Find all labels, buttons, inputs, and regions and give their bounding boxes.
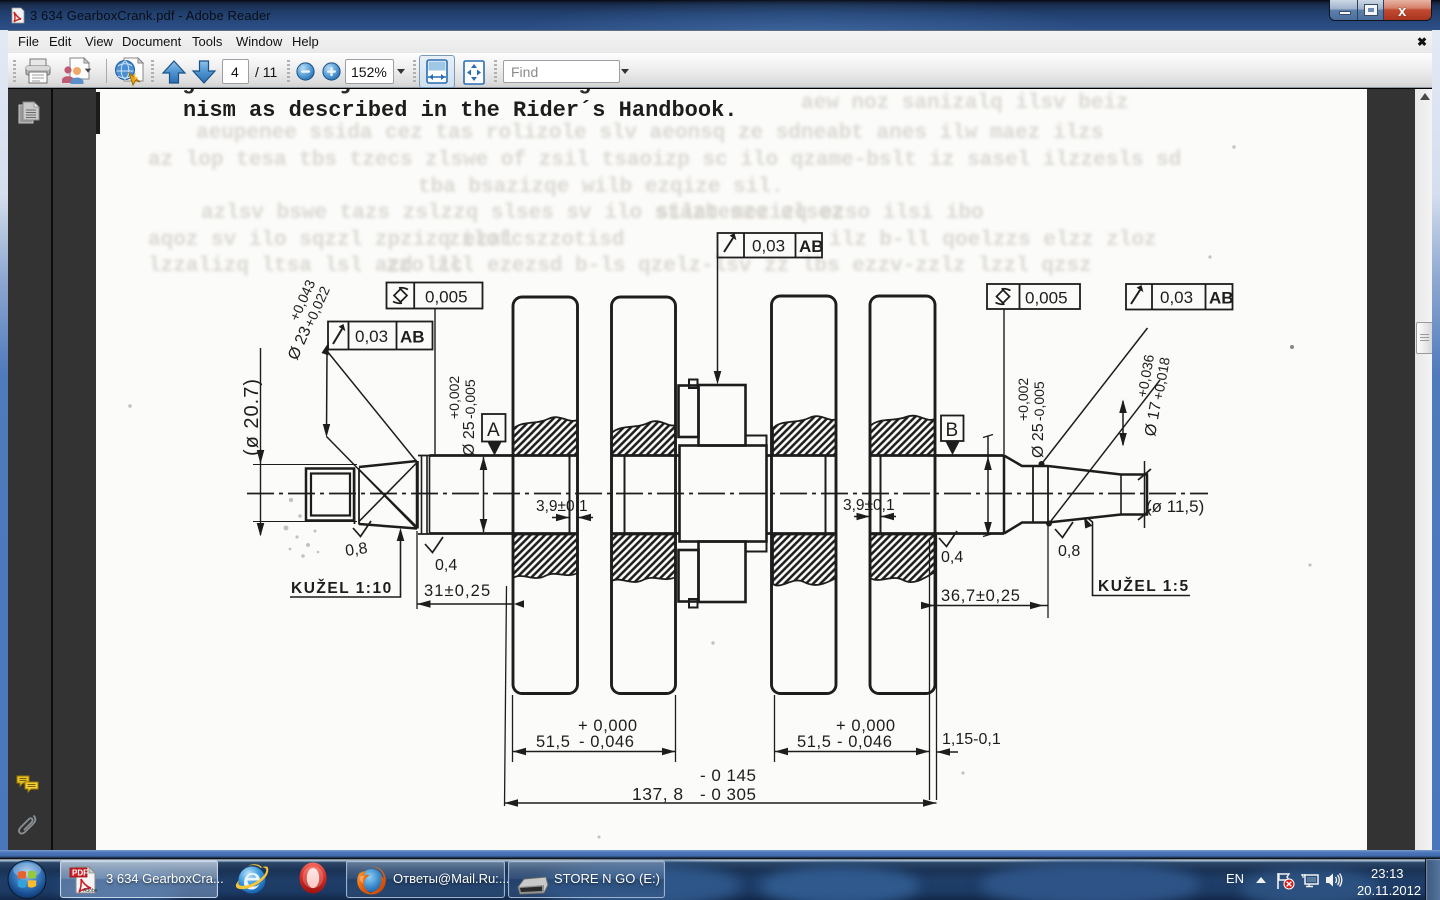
dim 36,7±0,25 [921,524,1048,800]
svg-text:0,8: 0,8 [1058,543,1080,560]
cone cross X [359,463,417,528]
hatch: web1 upper [513,416,935,586]
svg-text:0,03: 0,03 [1160,288,1193,307]
taskbar button: firefox [346,860,505,898]
fit width button (active) [419,55,455,88]
printer icon [24,58,52,85]
frame F2 runout 0,03 AB [328,322,433,350]
collar rings [418,456,430,535]
svg-text:0,03: 0,03 [355,327,388,346]
F3 leader arrow [717,258,719,378]
zoom out [296,62,315,81]
svg-text:KUŽEL 1:5: KUŽEL 1:5 [1098,577,1190,595]
svg-text:36,7±0,25: 36,7±0,25 [941,587,1021,605]
svg-text:0,005: 0,005 [425,288,468,307]
typewriter line [183,98,738,123]
title bar [0,0,1440,30]
datum A flag [482,414,506,456]
svg-text:-0,005: -0,005 [462,379,478,419]
hatch: web4 lower [870,535,935,583]
frame F5 0,03 AB right [1126,284,1233,310]
svg-text:51,5: 51,5 [536,733,571,751]
ghost bleed-through lines [801,92,1129,115]
hatch: web2 upper [612,421,676,455]
right shaft end profile [1004,456,1147,534]
svg-text:- 0,046: - 0,046 [837,733,893,751]
page number box [222,59,249,84]
rotated label Ø25 left [446,376,478,456]
web 2 [612,297,676,694]
svg-text:(ø 11,5): (ø 11,5) [1146,497,1204,516]
svg-text:0,4: 0,4 [941,549,963,566]
collaborate icon [60,57,98,86]
svg-text:Ø 25: Ø 25 [1030,423,1047,458]
svg-text:AB: AB [1209,289,1234,308]
fit page button [462,60,486,85]
roughness 0,4 right [939,531,957,547]
tray: clock [1371,866,1404,881]
svg-text:0,8: 0,8 [344,540,368,560]
partial cut text line at page top [182,73,591,95]
tray: speaker [1325,872,1343,888]
svg-text:- 0 145: - 0 145 [700,766,756,785]
sidebar: paperclip icon [17,812,39,839]
hatch: web3 lower [773,535,836,586]
svg-text:Ø 23: Ø 23 [285,324,315,363]
gear: bottom tab [689,599,698,608]
gear: top ring [699,385,746,446]
taskbar button: usb [508,860,665,898]
dim 3,9 gap1 [552,514,593,522]
gear: top right step [746,436,767,446]
svg-text:3,9±0,1: 3,9±0,1 [843,497,895,514]
roughness 0,4 left [425,537,443,553]
groove lines web4 left [870,456,881,534]
start orb [7,860,47,899]
frame F3 top center [718,233,823,258]
dim 3,9 gap2 [854,513,896,521]
journal top/bottom lines [430,456,578,534]
svg-text:B: B [946,420,959,441]
gear: top collar [679,380,767,608]
scan speckles [128,145,1311,838]
svg-text:137, 8: 137, 8 [632,784,684,804]
gear: bottom ring [699,542,746,603]
gear: bottom right step [746,542,767,552]
window frame left [0,30,8,852]
dim 51,5 left [513,695,676,762]
datum B flag [941,416,964,456]
svg-text:AB: AB [400,328,425,347]
svg-text:1,15-0,1: 1,15-0,1 [942,731,1001,748]
svg-text:0,03: 0,03 [752,237,785,256]
svg-text:51,5: 51,5 [797,733,832,751]
hatch: web4 upper [870,416,935,456]
nav down arrow [191,59,217,85]
Ø25 left dim arrows [480,457,488,533]
Ø23 leader with arrows [321,341,417,529]
F1 leader [434,309,436,455]
hatch: web1 lower [513,535,578,579]
hatch: web3 upper [773,416,836,455]
title bar app icon [10,7,26,24]
nav up arrow [161,59,187,85]
sidebar: pages icon [18,101,40,127]
window frame right [1432,30,1440,852]
zoom in [322,62,341,81]
taper cone 1:10 outline [359,461,417,529]
globe-doc icon [114,57,144,87]
window frame bottom [0,850,1440,858]
gear: bottom collar [679,550,699,602]
svg-text:Adobe: Adobe [83,888,98,894]
dim 51,5 right [775,695,930,762]
square drive end inner face [311,474,350,516]
svg-text:0,4: 0,4 [435,557,457,574]
web 4 [870,296,935,694]
page scan content [96,89,1364,850]
svg-text:AB: AB [799,237,824,256]
sidebar: comments icon [16,774,40,796]
taskbar [0,858,1440,900]
svg-text:PDF: PDF [72,869,88,878]
F4 leader [1003,309,1005,455]
svg-text:31±0,25: 31±0,25 [424,582,491,600]
show desktop [1425,859,1440,900]
left dim (Ø 20.7) [253,348,357,537]
svg-text:KUŽEL 1:10: KUŽEL 1:10 [291,579,393,597]
rotated label Ø25 right [1015,378,1047,458]
svg-text:A: A [487,420,500,441]
svg-text:0,005: 0,005 [1025,289,1068,308]
groove lines web3 right [826,456,837,534]
svg-text:- 0,046: - 0,046 [579,733,635,751]
frame F1 0,005 [387,283,483,309]
svg-text:Ø 25: Ø 25 [461,421,478,456]
square drive end outer [306,469,354,521]
tray: network [1301,873,1319,888]
find box [503,60,620,83]
Ø25 right dim arrows [983,435,993,537]
Ø17 leader diagonals [1039,328,1161,527]
svg-text:- 0 305: - 0 305 [700,785,756,804]
frame F4 0,005 right [987,284,1080,309]
tray: EN [1226,871,1244,886]
groove lines web2 left [612,456,625,534]
rotated label Ø17 [1127,353,1172,438]
svg-text:(ø 20.7): (ø 20.7) [241,378,263,456]
dim (Ø 11,5) [1138,461,1151,528]
dim 1,15-0,1 [937,748,959,756]
shaft end face double lines [355,468,360,525]
hatch: web2 lower [612,535,676,582]
web 1 [513,297,578,694]
svg-text:-0,005: -0,005 [1031,381,1047,421]
dim 31±0,25 [417,531,524,609]
Opera icon [296,860,330,896]
zoom percent box [345,59,394,84]
tray: action center flag [1276,872,1296,890]
svg-text:Ø 17: Ø 17 [1142,400,1165,437]
svg-text:3,9±0,1: 3,9±0,1 [536,498,588,515]
menu bar [2,30,1438,53]
gear: hub [680,446,767,542]
groove lines web1 right [570,456,578,534]
rotated label Ø23 [271,277,333,363]
taskbar button: pdf (active) [60,860,218,898]
IE icon [233,860,271,898]
toolbar [2,53,1438,88]
web 3 [772,296,837,694]
svg-text:+0,002: +0,002 [1015,378,1031,421]
roughness 0,8 taper [1055,522,1073,538]
tray: hidden icons arrow [1255,876,1267,884]
svg-text:+0,002: +0,002 [446,376,462,419]
roughness 0,8 left [353,521,371,537]
dim 137,8 [505,586,937,807]
gear: top tab [689,380,698,389]
centerline [247,493,1208,495]
